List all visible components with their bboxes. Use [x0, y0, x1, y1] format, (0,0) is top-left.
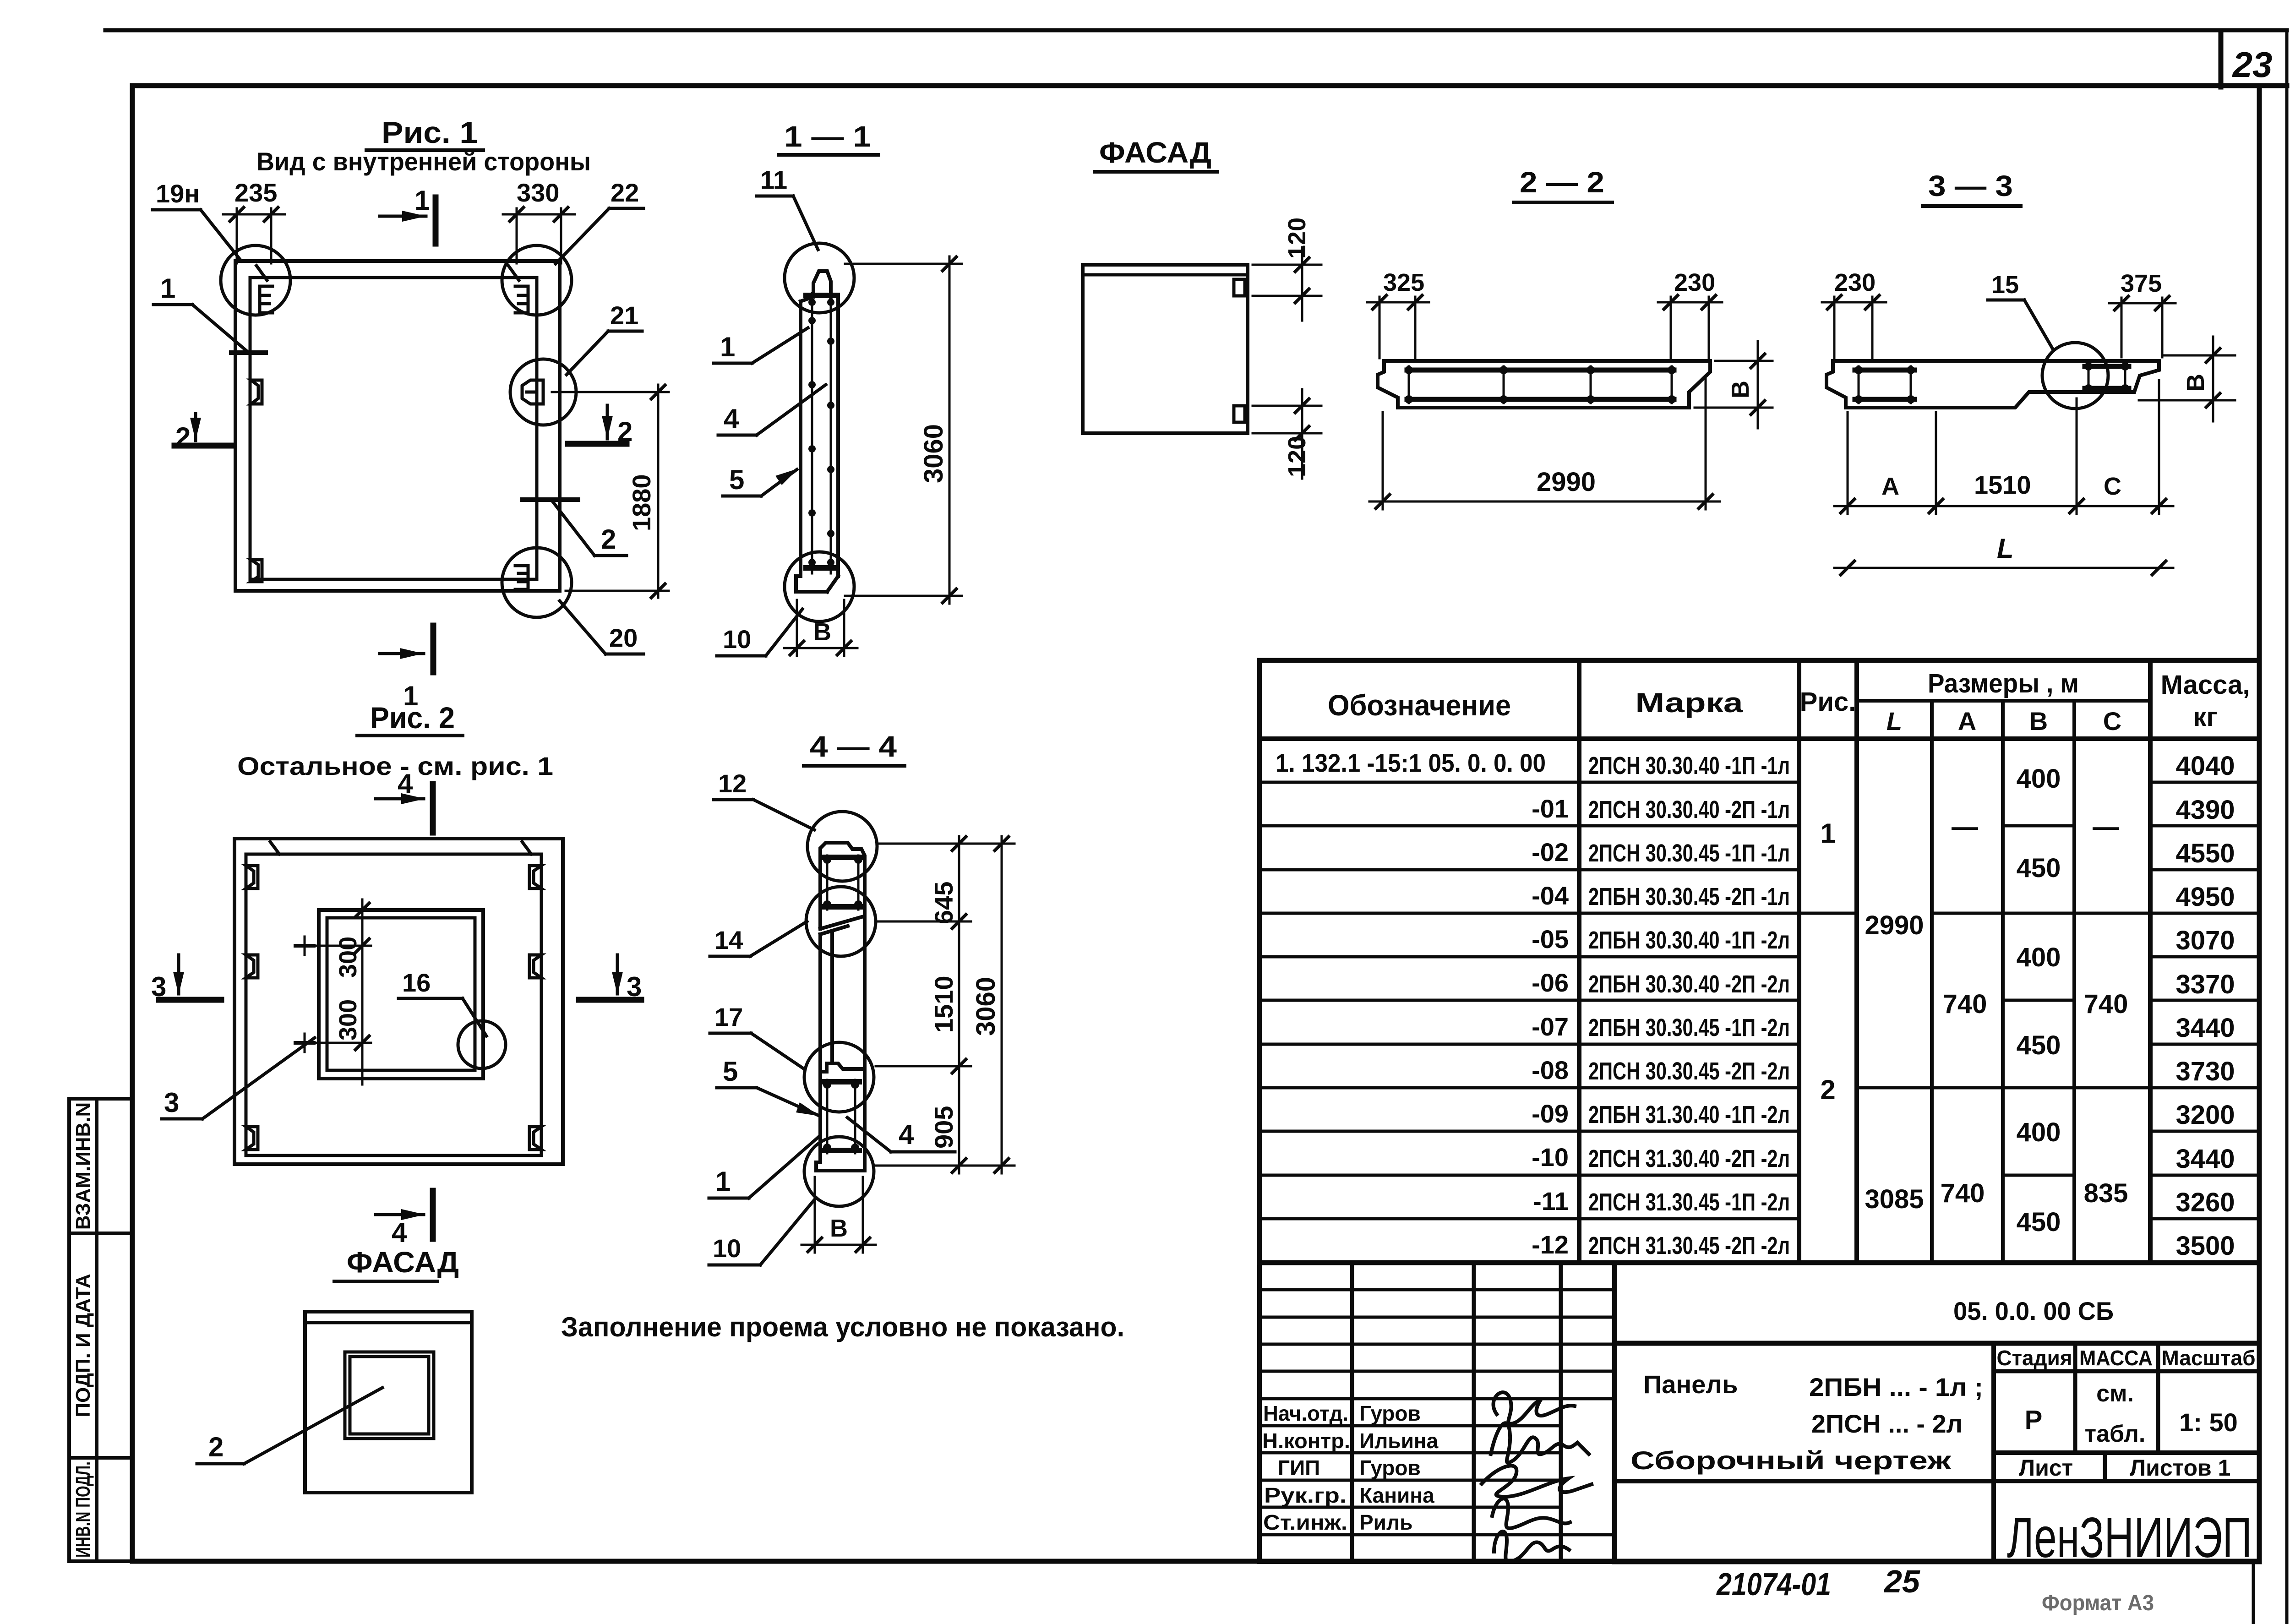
- section 4-4 label 4: [847, 1117, 955, 1152]
- svg-text:1510: 1510: [1974, 470, 2031, 499]
- fig2 anchor hooks left edge: [246, 866, 258, 1150]
- svg-text:ФАСАД: ФАСАД: [1099, 136, 1211, 169]
- svg-text:4: 4: [724, 403, 739, 434]
- svg-text:21074-01: 21074-01: [1716, 1566, 1831, 1602]
- fig2 section mark 3 left: [151, 955, 221, 1002]
- svg-text:19н: 19н: [156, 179, 200, 208]
- title block signature grid: [1259, 1263, 1614, 1562]
- svg-text:-09: -09: [1532, 1099, 1569, 1128]
- svg-text:5: 5: [723, 1056, 738, 1087]
- svg-text:4 — 4: 4 — 4: [810, 730, 897, 763]
- svg-text:-08: -08: [1532, 1056, 1569, 1084]
- svg-text:3060: 3060: [919, 424, 949, 483]
- section 3-3 left rebar box: [1854, 366, 1915, 403]
- row lines: massa column: [2150, 782, 2259, 1219]
- svg-text:2: 2: [208, 1432, 224, 1462]
- svg-text:кг: кг: [2193, 702, 2217, 732]
- svg-text:2: 2: [1820, 1074, 1835, 1105]
- section 4-4 label 10: [709, 1198, 816, 1265]
- svg-text:325: 325: [1383, 269, 1424, 296]
- fig1 label 21: [567, 301, 642, 375]
- svg-text:Листов 1: Листов 1: [2130, 1455, 2230, 1481]
- facade top underline: [1095, 170, 1217, 174]
- svg-text:2990: 2990: [1537, 467, 1596, 497]
- svg-text:Рук.гр.: Рук.гр.: [1264, 1483, 1347, 1507]
- svg-text:3: 3: [164, 1087, 179, 1118]
- fig1 label 19n: [153, 179, 241, 261]
- svg-text:-12: -12: [1532, 1230, 1569, 1259]
- svg-text:450: 450: [2017, 1207, 2061, 1237]
- facade bottom underline: [334, 1280, 437, 1283]
- svg-text:Рис. 2: Рис. 2: [370, 701, 455, 735]
- section 3-3 dimension 230: [1822, 269, 1886, 358]
- fig2 detail circle 16: [458, 1021, 506, 1068]
- fig1 section mark 2 left: [174, 414, 231, 452]
- svg-text:230: 230: [1674, 269, 1715, 296]
- svg-text:300: 300: [334, 999, 362, 1041]
- fig2 window opening inner: [327, 918, 475, 1070]
- facade bottom label 2: [197, 1388, 382, 1464]
- page number box 23: [2015, 32, 2287, 87]
- section 1-1 top circle: [785, 243, 854, 313]
- svg-text:Марка: Марка: [1636, 687, 1744, 718]
- svg-text:15: 15: [1991, 271, 2019, 299]
- fig2 window opening outer: [319, 910, 483, 1079]
- section 4-4 dimension B: [801, 1177, 876, 1253]
- section 4-4 circle 17: [804, 1042, 874, 1112]
- svg-text:1: 1: [1820, 818, 1835, 849]
- table column: massa values: [2175, 751, 2235, 1261]
- section 4-4 title underline: [804, 764, 905, 768]
- fig2 anchor hooks right edge: [529, 866, 541, 1150]
- svg-text:С: С: [2103, 707, 2121, 736]
- fig2 section mark 3 right: [579, 955, 642, 1002]
- section 2-2 beam outline: [1378, 361, 1710, 408]
- fig1 circle right-middle: [510, 359, 576, 425]
- fig2 label 16: [398, 968, 486, 1036]
- svg-text:1: 1: [160, 273, 175, 304]
- svg-text:2ПБН 30.30.40 -1П -2л: 2ПБН 30.30.40 -1П -2л: [1588, 926, 1790, 954]
- svg-text:ФАСАД: ФАСАД: [347, 1246, 459, 1279]
- svg-text:230: 230: [1834, 269, 1876, 296]
- section 1-1 label 10: [717, 609, 802, 656]
- svg-text:Нач.отд.: Нач.отд.: [1263, 1401, 1348, 1425]
- section 1-1 rebar top anchor: [806, 293, 837, 298]
- fig1 anchor detail top-right: [508, 266, 528, 313]
- section 3-3 right rebar box: [2084, 362, 2129, 392]
- svg-text:—: —: [2093, 812, 2119, 842]
- svg-text:4550: 4550: [2175, 839, 2235, 868]
- svg-text:10: 10: [723, 625, 751, 654]
- fig1 anchor detail left-middle: [251, 380, 262, 404]
- svg-text:Заполнение проема условно не п: Заполнение проема условно не показано.: [561, 1312, 1124, 1342]
- svg-text:4390: 4390: [2175, 795, 2235, 825]
- section 1-1 label 11: [757, 165, 818, 250]
- section 4-4 member outline: [816, 843, 865, 1171]
- svg-text:—: —: [1952, 812, 1978, 842]
- fig2 dimension 300 double: [295, 899, 371, 1084]
- svg-text:2: 2: [601, 524, 616, 555]
- fig1 dimension 1880: [552, 385, 669, 598]
- section 4-4 bottom rebar box: [823, 1080, 859, 1153]
- svg-text:2ПСН 31.30.45 -1П -2л: 2ПСН 31.30.45 -1П -2л: [1588, 1188, 1790, 1216]
- svg-text:400: 400: [2017, 1117, 2061, 1147]
- section 3-3 dimension B: [2139, 337, 2235, 421]
- svg-text:-01: -01: [1532, 794, 1569, 823]
- fig1 item mark 2 right: [523, 500, 627, 556]
- svg-text:ЛенЗНИИЭП: ЛенЗНИИЭП: [2007, 1506, 2252, 1570]
- section 4-4 dimension chain 645/1510/905: [876, 836, 1014, 1173]
- table column: L values: [1865, 910, 1924, 1214]
- svg-text:2ПСН 31.30.40 -2П -2л: 2ПСН 31.30.40 -2П -2л: [1588, 1145, 1790, 1172]
- section 3-3 dimension 375: [2109, 270, 2175, 357]
- svg-text:4950: 4950: [2175, 882, 2235, 912]
- svg-text:ВЗАМ.ИНВ.N: ВЗАМ.ИНВ.N: [72, 1102, 94, 1230]
- svg-text:Гуров: Гуров: [1359, 1401, 1421, 1425]
- svg-text:1: 1: [715, 1166, 731, 1197]
- svg-text:С: С: [2104, 473, 2121, 500]
- merged-cell dividers: ris, L, A, B, C columns: [1799, 826, 2150, 1175]
- svg-text:10: 10: [713, 1234, 741, 1263]
- fig1 corner circle top-left: [221, 245, 290, 315]
- handwritten doc number bottom: [1716, 1564, 2154, 1615]
- section 2-2 underline: [1514, 201, 1612, 204]
- title block right part grid: [1614, 1263, 2259, 1562]
- column dividers: [1577, 660, 1581, 1263]
- section 2-2 rebar chords: [1405, 366, 1676, 403]
- svg-text:120: 120: [1283, 218, 1311, 259]
- section 4-4 label 17: [710, 1003, 805, 1069]
- svg-text:17: 17: [714, 1003, 743, 1031]
- fig2 corner ticks: [270, 842, 531, 854]
- svg-text:ПОДП. И ДАТА: ПОДП. И ДАТА: [72, 1274, 94, 1417]
- section 4-4 label 1: [709, 1136, 820, 1198]
- svg-text:1 — 1: 1 — 1: [784, 120, 871, 153]
- razmery subheader line: [1857, 699, 2150, 703]
- fig2 section mark 4 bottom: [376, 1191, 433, 1248]
- section 2-2 dimension 230: [1658, 269, 1722, 358]
- svg-text:Масштаб: Масштаб: [2162, 1346, 2256, 1370]
- svg-text:400: 400: [2017, 943, 2061, 972]
- svg-text:235: 235: [234, 178, 277, 207]
- svg-text:20: 20: [609, 623, 638, 652]
- section 1-1 label 4: [718, 385, 826, 435]
- svg-text:1. 132.1 -15:1 05. 0. 0. 00: 1. 132.1 -15:1 05. 0. 0. 00: [1276, 748, 1546, 777]
- svg-text:В: В: [2182, 374, 2209, 392]
- svg-text:2ПСН 30.30.45 -2П -2л: 2ПСН 30.30.45 -2П -2л: [1588, 1057, 1790, 1085]
- svg-text:12: 12: [718, 769, 747, 798]
- section 4-4 label 14: [710, 921, 807, 956]
- svg-text:2ПБН 30.30.45 -1П -2л: 2ПБН 30.30.45 -1П -2л: [1588, 1014, 1790, 1041]
- svg-text:2ПСН ... - 2л: 2ПСН ... - 2л: [1811, 1409, 1963, 1438]
- svg-text:Ильина: Ильина: [1359, 1429, 1439, 1453]
- svg-text:400: 400: [2017, 764, 2061, 794]
- svg-text:В: В: [830, 1215, 848, 1242]
- table column: B values: [2017, 764, 2061, 1237]
- svg-text:05. 0.0. 00 СБ: 05. 0.0. 00 СБ: [1953, 1297, 2114, 1325]
- svg-text:L: L: [1997, 533, 2014, 564]
- fig1 panel inner contour: [250, 278, 537, 579]
- svg-text:25: 25: [1883, 1564, 1920, 1599]
- svg-text:-02: -02: [1532, 838, 1569, 866]
- svg-text:2ПБН 30.30.45 -2П -1л: 2ПБН 30.30.45 -2П -1л: [1588, 883, 1790, 910]
- svg-text:ГИП: ГИП: [1278, 1456, 1320, 1480]
- svg-text:1: 1: [720, 332, 735, 362]
- list row: [2019, 1455, 2230, 1481]
- svg-text:-11: -11: [1533, 1187, 1569, 1215]
- facade bottom square: [305, 1312, 472, 1493]
- section 1-1 label 1: [714, 328, 808, 363]
- section 2-2 dimension 2990: [1369, 376, 1720, 509]
- svg-text:2ПСН 30.30.40 -1П -1л: 2ПСН 30.30.40 -1П -1л: [1588, 752, 1790, 779]
- stage/mass/scale values: [2025, 1380, 2238, 1447]
- svg-text:120: 120: [1283, 436, 1311, 477]
- svg-text:L: L: [1887, 707, 1902, 736]
- svg-text:Лист: Лист: [2019, 1455, 2073, 1481]
- svg-text:14: 14: [714, 926, 743, 954]
- svg-text:740: 740: [1941, 1178, 1985, 1208]
- fig1 title underline: [366, 148, 483, 152]
- svg-text:Формат А3: Формат А3: [2042, 1591, 2154, 1615]
- svg-text:ИНВ.N ПОДЛ.: ИНВ.N ПОДЛ.: [72, 1461, 94, 1558]
- section 4-4 label 5: [717, 1056, 820, 1116]
- svg-text:В: В: [813, 618, 831, 646]
- section 2-2 dimension B: [1695, 341, 1772, 428]
- svg-text:2990: 2990: [1865, 910, 1924, 940]
- svg-text:Гуров: Гуров: [1359, 1456, 1421, 1480]
- svg-text:450: 450: [2017, 853, 2061, 883]
- table column: C values: [2084, 812, 2128, 1208]
- fig1 dimension 330: [503, 178, 575, 263]
- svg-text:1880: 1880: [627, 474, 656, 531]
- svg-text:Канина: Канина: [1359, 1483, 1434, 1507]
- svg-text:3060: 3060: [971, 977, 1001, 1036]
- svg-text:В: В: [1727, 381, 1754, 398]
- svg-text:835: 835: [2084, 1178, 2128, 1208]
- facade top square: [1083, 265, 1248, 433]
- section 4-4 top rebar box: [823, 856, 862, 910]
- facade top hook upper: [1234, 279, 1245, 296]
- section 4-4 circle 12: [807, 812, 877, 881]
- fig1 anchor detail bottom-right: [515, 566, 528, 589]
- section 1-1 dimension B: [784, 600, 857, 656]
- svg-text:Рис. 1: Рис. 1: [382, 115, 478, 149]
- fig1 circle bottom-right: [502, 548, 572, 617]
- facade top hook lower: [1234, 406, 1245, 422]
- svg-text:3440: 3440: [2175, 1013, 2235, 1043]
- svg-text:Н.контр.: Н.контр.: [1262, 1429, 1350, 1453]
- svg-text:450: 450: [2017, 1030, 2061, 1060]
- svg-text:21: 21: [610, 301, 638, 330]
- svg-text:2ПБН ... - 1л ;: 2ПБН ... - 1л ;: [1809, 1373, 1983, 1401]
- svg-text:-10: -10: [1532, 1143, 1569, 1172]
- table column: ris values: [1820, 818, 1835, 1105]
- stage/mass/scale headers: [1997, 1346, 2256, 1370]
- svg-text:4040: 4040: [2175, 751, 2235, 781]
- signatures scribbles: [1482, 1392, 1592, 1561]
- section 3-3 dimension A/1510/C: [1834, 380, 2173, 514]
- table column: A values: [1941, 812, 1987, 1208]
- fig1 title: [256, 115, 591, 176]
- section 3-3 dimension L: [1834, 533, 2173, 575]
- svg-text:300: 300: [334, 937, 362, 978]
- svg-text:Остальное - см. рис. 1: Остальное - см. рис. 1: [237, 752, 553, 780]
- svg-text:Р: Р: [2025, 1405, 2043, 1435]
- table column: marka values: [1588, 752, 1790, 1259]
- svg-text:2ПБН 31.30.40 -1П -2л: 2ПБН 31.30.40 -1П -2л: [1588, 1101, 1790, 1128]
- facade top dimension 120 lower: [1253, 389, 1321, 479]
- svg-text:2 — 2: 2 — 2: [1520, 166, 1604, 199]
- svg-text:3500: 3500: [2175, 1231, 2235, 1261]
- header bottom thick line: [1259, 736, 2259, 741]
- svg-text:1: 1: [414, 185, 430, 216]
- title block name: [1630, 1370, 1983, 1475]
- section 1-1 rebar bottom anchor: [806, 565, 837, 571]
- left stamp block: [69, 1099, 132, 1561]
- svg-text:3370: 3370: [2175, 970, 2235, 999]
- svg-text:3085: 3085: [1865, 1184, 1924, 1214]
- stamp block rotated labels: [72, 1102, 94, 1558]
- svg-text:3440: 3440: [2175, 1144, 2235, 1174]
- svg-text:3730: 3730: [2175, 1057, 2235, 1086]
- fig1 corner circle top-right: [502, 245, 572, 315]
- fig2 panel outer contour: [234, 839, 563, 1164]
- section 1-1 rebar cage: [812, 293, 831, 573]
- svg-text:-04: -04: [1532, 881, 1569, 910]
- facade bottom window: [345, 1352, 434, 1439]
- svg-text:А: А: [1881, 473, 1899, 500]
- fig2 title: [237, 701, 553, 780]
- svg-text:Панель: Панель: [1643, 1370, 1738, 1399]
- facade top dimension 120 upper: [1253, 218, 1321, 321]
- svg-text:22: 22: [611, 178, 639, 207]
- svg-text:табл.: табл.: [2085, 1421, 2146, 1447]
- svg-text:4: 4: [899, 1119, 914, 1150]
- svg-text:740: 740: [1943, 989, 1987, 1019]
- svg-text:2ПСН 31.30.45 -2П -2л: 2ПСН 31.30.45 -2П -2л: [1588, 1232, 1790, 1259]
- section 4-4 dimension 3060: [971, 836, 1009, 1173]
- svg-text:1510: 1510: [929, 975, 958, 1033]
- svg-text:МАССА: МАССА: [2079, 1346, 2153, 1370]
- fig1 anchor detail left-bottom: [251, 560, 262, 582]
- svg-text:Обозначение: Обозначение: [1328, 689, 1511, 722]
- svg-text:Стадия: Стадия: [1997, 1346, 2072, 1370]
- section 3-3 beam outline: [1827, 361, 2159, 408]
- fig2 title underline: [357, 734, 463, 737]
- svg-text:2ПСН 30.30.45 -1П -1л: 2ПСН 30.30.45 -1П -1л: [1588, 839, 1790, 867]
- svg-text:А: А: [1958, 707, 1976, 736]
- fig1 anchor detail top-left: [256, 266, 273, 313]
- svg-text:4: 4: [392, 1217, 407, 1248]
- specification table grid: [1259, 660, 2259, 1263]
- section 4-4 circle bottom: [804, 1137, 874, 1206]
- svg-text:375: 375: [2121, 270, 2162, 297]
- section 1-1 title underline: [779, 153, 878, 157]
- svg-text:Рис.: Рис.: [1800, 687, 1856, 717]
- svg-text:Масса,: Масса,: [2161, 670, 2250, 700]
- fig1 label 20: [560, 601, 643, 654]
- svg-text:3 — 3: 3 — 3: [1928, 169, 2013, 202]
- svg-text:В: В: [2029, 707, 2048, 736]
- section 1-1 dimension 3060: [845, 256, 962, 604]
- svg-text:Размеры , м: Размеры , м: [1928, 669, 2079, 698]
- section 3-3 detail circle 15: [2042, 343, 2108, 409]
- fig1 dimension 235: [223, 178, 285, 263]
- section 1-1 rebar dots: [808, 299, 834, 566]
- svg-text:см.: см.: [2096, 1380, 2134, 1407]
- table column: oboznachenie values: [1276, 748, 1569, 1259]
- svg-text:3260: 3260: [2175, 1188, 2235, 1217]
- fig1 label 22: [556, 178, 643, 264]
- svg-text:2ПБН 30.30.40 -2П -2л: 2ПБН 30.30.40 -2П -2л: [1588, 970, 1790, 998]
- section 3-3 underline: [1923, 204, 2021, 208]
- section 1-1 label 5: [723, 464, 798, 496]
- table header texts: [1328, 669, 2250, 736]
- fig2 panel inner contour: [246, 854, 541, 1155]
- fig1 panel outer contour: [235, 261, 560, 591]
- section 4-4 circle 14: [806, 887, 876, 956]
- section 4-4 label 12: [714, 769, 814, 830]
- fig2 section mark 4 top: [376, 768, 433, 833]
- signature block labels: [1262, 1401, 1439, 1534]
- svg-text:Ст.инж.: Ст.инж.: [1263, 1510, 1347, 1534]
- svg-text:3070: 3070: [2175, 926, 2235, 955]
- section 2-2 dimension 325: [1367, 269, 1429, 358]
- row lines: oboznachenie/marka columns: [1259, 782, 1799, 1219]
- svg-text:3200: 3200: [2175, 1100, 2235, 1130]
- fig1 section mark 2 right: [568, 405, 632, 447]
- fig2 label 3 leader: [162, 1038, 315, 1119]
- svg-text:23: 23: [2232, 44, 2273, 85]
- fig1 section mark 1 bottom: [380, 626, 433, 711]
- svg-text:Риль: Риль: [1359, 1510, 1412, 1534]
- svg-text:11: 11: [760, 165, 787, 194]
- svg-text:2ПСН 30.30.40 -2П -1л: 2ПСН 30.30.40 -2П -1л: [1588, 796, 1790, 823]
- svg-text:330: 330: [517, 178, 559, 207]
- fig1 item mark 1 left: [153, 273, 266, 353]
- section 3-3 label 15: [1988, 271, 2053, 349]
- fig1 section mark 1 top: [380, 185, 436, 244]
- svg-text:16: 16: [402, 968, 431, 997]
- svg-text:Сборочный чертеж: Сборочный чертеж: [1630, 1446, 1952, 1475]
- svg-text:-05: -05: [1532, 925, 1569, 954]
- svg-text:740: 740: [2084, 989, 2128, 1019]
- svg-text:-06: -06: [1532, 968, 1569, 997]
- fig1 anchor detail right-middle: [522, 380, 543, 404]
- svg-text:5: 5: [729, 464, 744, 495]
- section 1-1 member outline: [796, 271, 838, 592]
- svg-text:1: 50: 1: 50: [2179, 1408, 2238, 1437]
- svg-text:645: 645: [929, 882, 958, 924]
- svg-text:905: 905: [929, 1106, 958, 1149]
- svg-text:-07: -07: [1532, 1012, 1569, 1041]
- section 1-1 bottom circle: [785, 552, 854, 621]
